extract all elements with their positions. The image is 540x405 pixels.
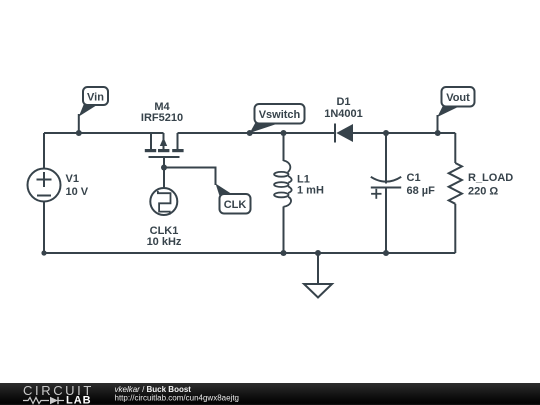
flag Vout [437,87,474,133]
flag Vswitch [250,104,305,133]
svg-text:68 µF: 68 µF [407,185,436,197]
diode D1 [335,124,353,143]
node L1 top junction [281,130,287,136]
node gate junction [161,165,167,171]
wire D1 to Vout corner [353,132,455,134]
node C1 top junction [383,130,389,136]
label L1 1 mH [297,174,324,197]
wire L1 bottom lead [283,207,285,254]
node Vout junction [435,130,441,136]
wire C1 top lead [385,133,387,184]
wire bottom rail [44,252,455,254]
label M4 IRF5210 [141,101,183,124]
inductor L1 [274,161,292,207]
transistor M4 (P-MOSFET) [145,133,184,157]
svg-text:10 kHz: 10 kHz [147,236,182,248]
node L1 bottom junction [281,250,287,256]
capacitor C1 (polarized) [371,177,401,199]
wire top rail from V1 to M4 source/body [44,132,164,134]
wire L1 top lead [283,133,285,161]
wire R_LOAD top lead [454,133,456,163]
wire M4 gate to CLK1 [163,157,165,188]
svg-text:IRF5210: IRF5210 [141,112,183,124]
resistor R_LOAD [449,163,462,204]
svg-text:C1: C1 [407,172,421,184]
svg-text:Vswitch: Vswitch [259,109,301,121]
svg-text:http://circuitlab.com/cun4gwx8: http://circuitlab.com/cun4gwx8aejtg [115,394,240,403]
svg-text:1 mH: 1 mH [297,185,324,197]
label V1 10 V [66,173,89,198]
flag CLK [216,184,251,214]
node V1 bottom junction [41,250,46,255]
node ground junction [315,250,321,256]
svg-text:1N4001: 1N4001 [324,108,363,120]
wire gate junction to CLK flag [164,168,216,186]
node Vin junction [76,130,82,136]
label CLK1 10 kHz [147,225,182,248]
svg-text:220 Ω: 220 Ω [468,186,498,198]
wire M4 drain rail to D1 [178,132,337,134]
svg-text:R_LOAD: R_LOAD [468,172,513,184]
CircuitLab logo diode symbol [50,397,64,404]
svg-text:Vin: Vin [87,92,104,104]
svg-text:Vout: Vout [446,92,470,104]
ground [304,253,332,298]
voltage source V1 [28,169,61,202]
wire R_LOAD bottom lead [454,204,456,253]
svg-text:D1: D1 [336,96,350,108]
wire C1 bottom lead [385,188,387,254]
node Vswitch junction [247,130,253,136]
svg-text:V1: V1 [66,173,79,185]
label R_LOAD 220 ohm [468,172,513,198]
wire V1 top lead [43,133,45,169]
svg-text:CLK: CLK [224,199,247,211]
svg-text:LAB: LAB [66,395,92,405]
clock source CLK1 [150,188,177,215]
footer bar [0,383,540,405]
CircuitLab logo resistor zigzag [23,398,49,404]
svg-text:10 V: 10 V [66,186,89,198]
node C1 bottom junction [383,250,389,256]
flag Vin [79,87,108,133]
label C1 68 uF [407,172,436,197]
wire V1 bottom lead [43,202,45,254]
label D1 1N4001 [324,96,363,120]
